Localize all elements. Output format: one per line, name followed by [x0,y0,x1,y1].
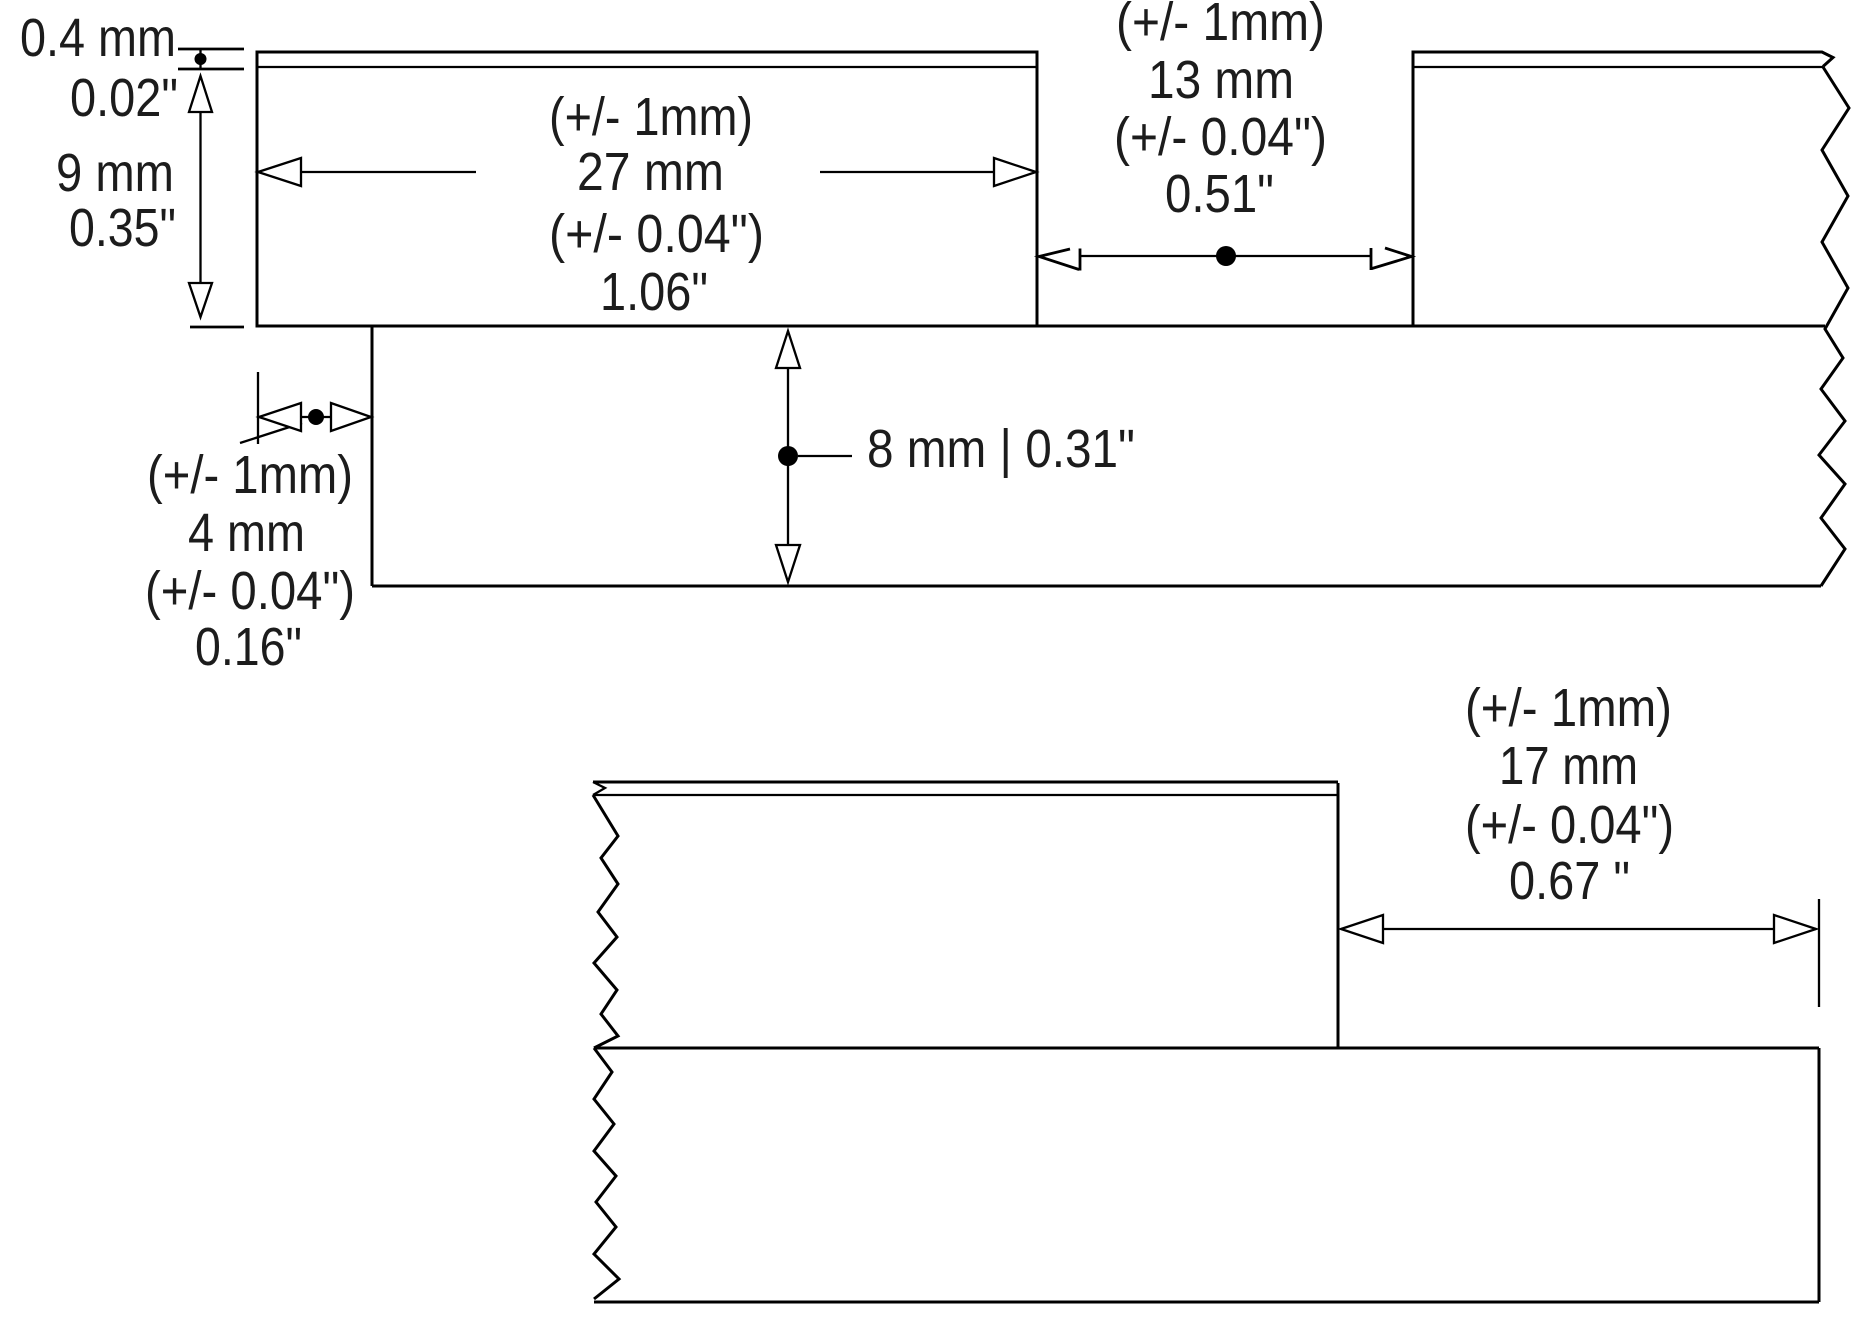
svg-text:1.06": 1.06" [600,263,708,322]
svg-text:13 mm: 13 mm [1148,51,1294,110]
svg-text:(+/- 1mm): (+/- 1mm) [147,446,353,505]
8mm down arrowhead [776,545,800,582]
bottom slab top line [257,325,1825,328]
4mm left arrowhead [259,403,301,431]
bottom plate left notch [593,782,605,795]
13mm node dot [1216,246,1236,266]
top figure right break zigzag [1819,67,1849,586]
17mm left arrowhead [1341,915,1383,943]
4mm node dot [308,409,324,425]
top-right plate outline [1413,52,1833,326]
svg-text:0.02": 0.02" [70,69,178,128]
9mm down arrowhead [189,283,212,317]
0.4mm node stem [199,49,201,69]
27mm left dimension line [301,171,476,173]
27mm right arrowhead [994,158,1036,186]
4mm slash [240,423,302,443]
svg-text:(+/- 1mm): (+/- 1mm) [1465,679,1672,738]
bottom slab2 bottom line [594,1301,1819,1304]
bottom slab2 right edge [1818,1048,1821,1302]
9mm dimension line [199,112,201,283]
svg-text:0.67 ": 0.67 " [1509,852,1630,911]
17mm extension line [1818,899,1820,1007]
svg-text:27 mm: 27 mm [577,143,724,202]
top-left plate 0.4mm layer line [257,66,1037,68]
13mm left arrowhead [1039,249,1080,271]
svg-text:(+/- 1mm): (+/- 1mm) [1116,0,1325,52]
0.4mm lower tick line [178,68,244,71]
13mm dimension line [1081,255,1370,257]
svg-text:(+/- 0.04"): (+/- 0.04") [549,205,764,264]
8mm leader line [798,455,852,457]
top-right plate 0.4mm layer line [1413,66,1823,68]
svg-text:17 mm: 17 mm [1499,737,1638,796]
svg-text:4 mm: 4 mm [188,504,305,563]
svg-text:9 mm: 9 mm [56,144,174,203]
13mm right arrowhead [1371,248,1412,270]
bottom slab2 step line [594,1047,1819,1050]
svg-text:0.4 mm: 0.4 mm [20,9,176,68]
bottom figure left break zigzag upper [593,795,618,1048]
bottom plate right edge [1337,783,1340,1048]
bottom slab left edge [371,326,374,586]
4mm extension line [257,372,259,444]
svg-text:0.51": 0.51" [1165,165,1274,224]
bottom figure left break zigzag lower [594,1048,619,1299]
9mm up arrowhead [189,76,212,112]
svg-text:8 mm | 0.31": 8 mm | 0.31" [867,420,1135,479]
svg-text:(+/- 0.04"): (+/- 0.04") [1465,796,1674,855]
17mm right arrowhead [1774,915,1816,943]
svg-text:(+/- 0.04"): (+/- 0.04") [1114,108,1327,167]
svg-text:(+/- 0.04"): (+/- 0.04") [145,562,355,621]
8mm node dot [778,446,798,466]
svg-text:(+/- 1mm): (+/- 1mm) [549,88,753,147]
4mm mid line [301,416,331,418]
bottom plate top line [593,781,1338,784]
svg-text:0.35": 0.35" [69,199,176,258]
top-left plate outline [257,52,1037,326]
8mm dimension line [787,368,789,545]
27mm right dimension line [820,171,994,173]
9mm bottom tick line [190,326,244,329]
bottom slab bottom line [372,585,1821,588]
4mm right arrowhead [331,403,371,431]
17mm dimension line [1341,928,1816,930]
bottom plate layer line [593,794,1338,796]
svg-text:0.16": 0.16" [195,618,302,677]
8mm up arrowhead [776,331,800,368]
0.4mm upper tick line [178,48,244,51]
27mm left arrowhead [258,158,301,186]
0.4mm node dot [195,53,207,65]
